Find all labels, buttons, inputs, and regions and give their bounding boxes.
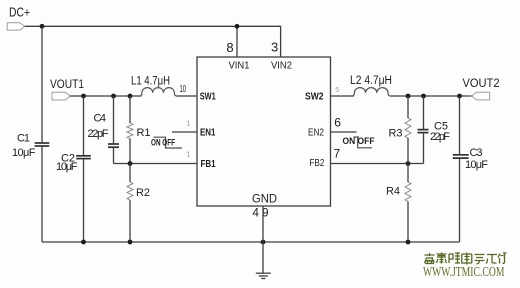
watermark chinese glyphs [425,253,507,265]
svg-text:VOUT2: VOUT2 [463,76,500,90]
junction dot VIN1 [235,24,240,29]
svg-text:R2: R2 [136,187,150,199]
svg-text:EN2: EN2 [308,127,324,139]
ground [256,272,271,274]
inductor L2 [352,88,390,96]
resistor R1 [127,123,133,139]
connector tag DC+ [7,23,25,30]
junction dot C5 top [421,94,426,99]
wire R1 bottom to FB1 [129,139,131,164]
svg-text:ON OFF: ON OFF [343,136,375,146]
capacitor C3 [453,154,469,156]
svg-text:GND: GND [252,194,277,206]
wire C4 bottom to FB1 [113,147,115,163]
svg-text:C3: C3 [470,147,483,159]
svg-text:22pF: 22pF [430,131,450,143]
svg-text:10: 10 [180,84,187,95]
wire top bus DC+ to VIN2 corner [25,26,281,57]
svg-text:6: 6 [334,116,341,130]
resistor R4 [405,182,411,201]
svg-text:WWW.JTMIC.COM: WWW.JTMIC.COM [423,265,505,280]
junction dot C2 bottom [81,240,86,245]
resistor R2 [127,182,133,200]
wire R4 bottom to ground bus [407,202,409,243]
svg-text:FB2: FB2 [309,157,324,169]
svg-text:SW2: SW2 [305,90,324,102]
junction dot R4 bottom [406,240,411,245]
junction dot C3 top [457,94,462,99]
wire SW2 pin [331,95,355,97]
wire C1 bottom to ground bus [41,146,43,242]
junction dot FB1/R1/R2 [128,161,133,166]
svg-text:1: 1 [187,121,191,128]
junction dot R3 top [406,94,411,99]
svg-text:VIN2: VIN2 [271,60,292,72]
svg-text:VOUT1: VOUT1 [50,77,84,91]
wire GND pin [262,206,264,273]
svg-text:FB1: FB1 [201,158,216,170]
svg-text:10μF: 10μF [12,147,36,159]
svg-text:L1 4.7μH: L1 4.7μH [131,76,170,88]
junction dot R2 bottom [128,240,133,245]
wire FB2 net [331,163,424,165]
svg-text:SW1: SW1 [200,90,216,102]
capacitor C1 [35,142,50,144]
connector tag VOUT1 [52,92,70,100]
svg-text:22pF: 22pF [88,128,109,140]
junction dot GND bus [261,240,266,245]
wire R1 branch top [129,96,131,123]
wire R2 bottom to ground bus [129,200,131,242]
op-amp U1 IC body [197,57,331,206]
wire C4 branch top [113,96,115,143]
svg-text:8: 8 [226,40,233,55]
wire EN1 pin [172,131,197,133]
wire R4 branch top [407,164,409,183]
wire VOUT1 to L1 [70,95,142,97]
inductor L1 [140,88,176,96]
svg-text:R3: R3 [389,128,403,140]
switch ON/OFF EN2 [354,136,360,138]
svg-text:L2 4.7μH: L2 4.7μH [350,75,392,87]
svg-text:1: 1 [187,152,191,159]
svg-text:VIN1: VIN1 [229,60,250,72]
svg-text:R4: R4 [386,186,400,198]
wire R3 branch top [407,96,409,118]
junction dot DC+ bus [40,24,45,29]
svg-text:10μF: 10μF [56,161,78,173]
wire L2 to VOUT2 [390,95,472,97]
junction dot C2 top [81,94,86,99]
wire C3 bottom to ground bus [459,158,461,242]
wire C5 branch top [423,96,425,129]
wire R3 bottom to FB2 [407,138,409,164]
wire ground bus [42,241,460,243]
svg-text:5: 5 [335,87,339,94]
switch ON/OFF EN1 [154,137,183,148]
svg-text:ON OFF: ON OFF [151,138,175,148]
wire FB1 net [114,163,198,165]
wire VIN1 pin [236,26,238,57]
svg-text:10μF: 10μF [465,159,488,171]
resistor R3 [405,118,411,138]
capacitor C5 [418,129,429,131]
capacitor C2 [76,155,91,157]
wire C5 bottom to FB2 [423,133,425,164]
wire EN2 pin [331,131,357,133]
svg-text:4 9: 4 9 [253,206,269,220]
connector tag VOUT2 [472,92,490,100]
svg-text:C1: C1 [17,133,30,145]
junction dot C4 top [111,94,116,99]
svg-text:3: 3 [271,40,278,55]
junction dot R1 top [128,94,133,99]
wire C3 branch top [459,96,461,154]
svg-text:7: 7 [334,147,341,161]
svg-text:DC+: DC+ [9,5,30,20]
svg-text:EN1: EN1 [200,127,216,139]
wire R2 branch top [129,164,131,183]
capacitor C4 [108,143,119,145]
junction dot FB2/R3/R4 [406,161,411,166]
svg-text:R1: R1 [137,127,151,139]
svg-text:C4: C4 [94,113,107,125]
wire C2 bottom to ground bus [83,159,85,242]
wire left bus down to C1 [41,26,43,143]
wire L1 to SW1 [176,95,197,97]
wire C2 branch top [83,96,85,155]
